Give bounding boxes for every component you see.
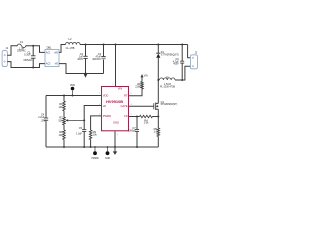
svg-text:226k: 226k — [135, 86, 141, 89]
svg-text:STTH2R06Q(ST): STTH2R06Q(ST) — [161, 55, 179, 57]
svg-text:1: 1 — [112, 84, 113, 86]
svg-text:VIN: VIN — [144, 76, 148, 78]
svg-text:10k: 10k — [93, 133, 98, 137]
svg-text:1.0: 1.0 — [153, 130, 157, 134]
svg-text:GND: GND — [113, 121, 119, 125]
svg-text:50k: 50k — [58, 118, 63, 122]
svg-text:C5: C5 — [79, 126, 83, 130]
svg-text:PL-1300-470B: PL-1300-470B — [160, 86, 175, 88]
svg-text:10k: 10k — [58, 133, 63, 137]
svg-text:450V: 450V — [173, 64, 179, 66]
svg-text:2: 2 — [131, 114, 132, 116]
svg-text:AC2: AC2 — [46, 63, 51, 66]
svg-text:7: 7 — [99, 93, 100, 95]
svg-text:CL-1HB: CL-1HB — [66, 47, 75, 50]
svg-text:250VAC: 250VAC — [17, 50, 26, 53]
svg-text:VDD: VDD — [103, 94, 109, 98]
svg-text:GATE: GATE — [120, 104, 127, 108]
svg-text:8: 8 — [131, 93, 132, 95]
svg-text:1.0k: 1.0k — [144, 121, 150, 125]
svg-text:+VO: +VO — [54, 53, 59, 55]
svg-text:1000pF: 1000pF — [128, 130, 136, 132]
svg-text:RT: RT — [124, 94, 128, 98]
svg-text:25V: 25V — [41, 121, 46, 123]
svg-text:4: 4 — [131, 104, 132, 106]
svg-text:1.0uF: 1.0uF — [76, 134, 83, 136]
svg-text:PWMD: PWMD — [103, 114, 112, 118]
svg-text:AC1: AC1 — [46, 52, 51, 55]
svg-text:10k: 10k — [58, 105, 63, 109]
svg-text:STD2NM60(ST): STD2NM60(ST) — [161, 104, 178, 106]
svg-text:HV9910B: HV9910B — [106, 99, 123, 104]
svg-text:GND: GND — [105, 158, 110, 160]
svg-text:DB1: DB1 — [47, 46, 53, 50]
svg-text:VIN: VIN — [118, 86, 123, 90]
svg-text:LD: LD — [103, 104, 106, 108]
svg-text:0.1uF: 0.1uF — [24, 53, 31, 57]
svg-text:D1: D1 — [161, 50, 165, 54]
svg-text:VDD: VDD — [70, 84, 75, 87]
svg-text:PWMD: PWMD — [91, 158, 98, 160]
svg-text:F1: F1 — [20, 40, 24, 44]
svg-text:C4: C4 — [41, 112, 45, 116]
svg-text:-VO: -VO — [54, 64, 58, 66]
svg-text:CS: CS — [124, 114, 128, 118]
svg-text:C7: C7 — [132, 126, 136, 130]
svg-text:2.2uF: 2.2uF — [38, 117, 45, 119]
svg-text:400V: 400V — [77, 58, 83, 61]
svg-text:600VAC: 600VAC — [23, 59, 32, 62]
svg-text:3: 3 — [117, 134, 118, 136]
svg-text:400VDC: 400VDC — [92, 59, 101, 61]
